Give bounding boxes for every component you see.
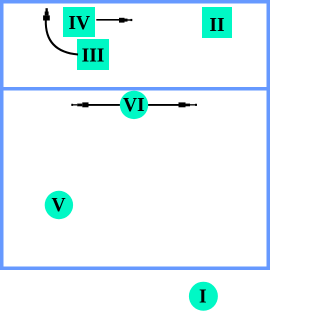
arrow from IV to right bbox=[96, 18, 132, 23]
svg-text:I: I bbox=[199, 286, 207, 307]
svg-text:III: III bbox=[82, 46, 105, 67]
svg-text:V: V bbox=[51, 195, 65, 216]
position III box bbox=[77, 39, 109, 70]
position VI circle bbox=[120, 91, 148, 119]
court frame bbox=[2, 2, 269, 269]
svg-text:II: II bbox=[209, 15, 224, 36]
double arrow through VI bbox=[71, 102, 197, 107]
position IV box bbox=[63, 7, 95, 37]
svg-text:VI: VI bbox=[123, 95, 145, 116]
position V circle bbox=[45, 191, 73, 219]
curved arrow from III up-left bbox=[43, 8, 78, 54]
position II box bbox=[202, 7, 232, 38]
position I circle (server) bbox=[189, 282, 218, 311]
svg-text:IV: IV bbox=[68, 13, 90, 34]
net line bbox=[0, 87, 270, 91]
